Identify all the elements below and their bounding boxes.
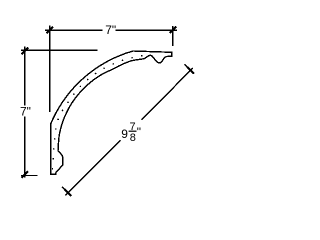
tick top-left: [46, 27, 53, 34]
tick top-right: [170, 27, 177, 34]
svg-text:9: 9: [121, 127, 128, 141]
dimension line left 7" (upper segment): [24, 47, 26, 106]
dimension line top 7" (right segment): [116, 29, 177, 31]
extension line vertical left (from top dim down to profile): [49, 26, 51, 112]
extension line horizontal bottom stub: [21, 175, 37, 177]
extension line horizontal top (from left dim toward profile): [21, 49, 97, 51]
moulding profile outline: [51, 51, 172, 174]
extension line vertical right (from top dim down to nose): [172, 26, 174, 46]
tick left-top: [22, 48, 29, 55]
profile centerline (dotted): [53, 56, 153, 173]
extension line diagonal upper: [184, 64, 194, 74]
dimension line diagonal 9 7/8" (lower segment): [65, 140, 120, 195]
dimension line diagonal 9 7/8" (upper segment): [142, 68, 193, 120]
tick diagonal lower: [65, 189, 72, 196]
dimension line top 7" (left segment): [45, 29, 102, 31]
svg-text:7": 7": [20, 105, 31, 119]
svg-text:7": 7": [105, 23, 116, 37]
svg-text:8: 8: [130, 132, 136, 144]
svg-text:": ": [137, 125, 141, 139]
dimension line left 7" (lower segment): [24, 117, 26, 178]
tick diagonal upper: [187, 67, 194, 74]
tick left-bottom: [22, 171, 29, 178]
extension line diagonal lower: [62, 187, 71, 196]
label 9 7/8 inch: fraction bar: [129, 131, 137, 132]
